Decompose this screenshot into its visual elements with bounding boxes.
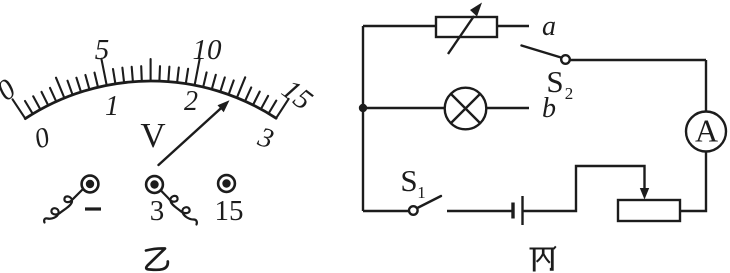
terminal 3 xyxy=(146,176,163,193)
svg-text:3: 3 xyxy=(150,195,165,227)
wire down to ammeter xyxy=(705,60,707,112)
meter scale arc xyxy=(25,81,276,119)
wire S2 to top right corner xyxy=(570,59,706,61)
svg-text:15: 15 xyxy=(215,195,244,227)
svg-text:A: A xyxy=(695,113,718,149)
wire jog over battery to R2 wiper xyxy=(523,166,645,211)
wire squiggle on minus terminal xyxy=(44,190,82,223)
wire R1 to node a xyxy=(497,25,529,27)
meter scale ticks xyxy=(13,59,289,119)
needle xyxy=(159,105,225,165)
svg-text:V: V xyxy=(140,116,165,155)
svg-text:1: 1 xyxy=(105,91,119,122)
svg-text:S: S xyxy=(400,163,417,198)
svg-text:1: 1 xyxy=(417,183,426,202)
wire top to rheostat R1 xyxy=(363,25,436,27)
battery long plate xyxy=(521,196,523,225)
caption 丙 xyxy=(530,246,556,271)
wire bottom left to S1 xyxy=(363,210,409,212)
svg-text:5: 5 xyxy=(95,34,110,66)
variable resistor R1 body xyxy=(436,17,497,37)
needle arrowhead xyxy=(218,100,230,112)
svg-text:a: a xyxy=(542,11,556,42)
R1 arrow xyxy=(448,16,474,54)
rheostat R2 body xyxy=(618,200,680,221)
wire lamp to node b xyxy=(487,107,530,109)
svg-text:0: 0 xyxy=(31,122,54,156)
svg-text:2: 2 xyxy=(565,84,574,103)
svg-text:2: 2 xyxy=(184,86,198,117)
lamp L1 cross xyxy=(451,94,480,123)
R2 wiper arrowhead xyxy=(640,188,649,200)
wire S1 to battery xyxy=(447,210,513,212)
battery short plate xyxy=(511,203,514,219)
terminal 15 xyxy=(218,175,235,192)
svg-text:S: S xyxy=(546,64,563,99)
svg-text:3: 3 xyxy=(253,121,277,155)
junction node xyxy=(359,104,367,112)
caption 乙 xyxy=(146,248,168,269)
wire lamp left xyxy=(363,107,445,109)
wire left vertical xyxy=(362,26,364,211)
ammeter A1 circle xyxy=(686,112,726,152)
terminal minus xyxy=(82,176,99,193)
label minus xyxy=(85,207,101,210)
wire ammeter to bottom corner xyxy=(680,152,706,212)
lamp L1 circle xyxy=(445,88,487,130)
switch S2 lever xyxy=(522,46,562,58)
svg-text:0: 0 xyxy=(0,73,22,107)
switch S2 contact circle xyxy=(561,55,570,64)
svg-text:10: 10 xyxy=(193,34,223,66)
switch S1 contact circle xyxy=(409,206,418,215)
wire squiggle on terminal 3 xyxy=(161,190,197,225)
switch S1 lever xyxy=(417,196,441,208)
